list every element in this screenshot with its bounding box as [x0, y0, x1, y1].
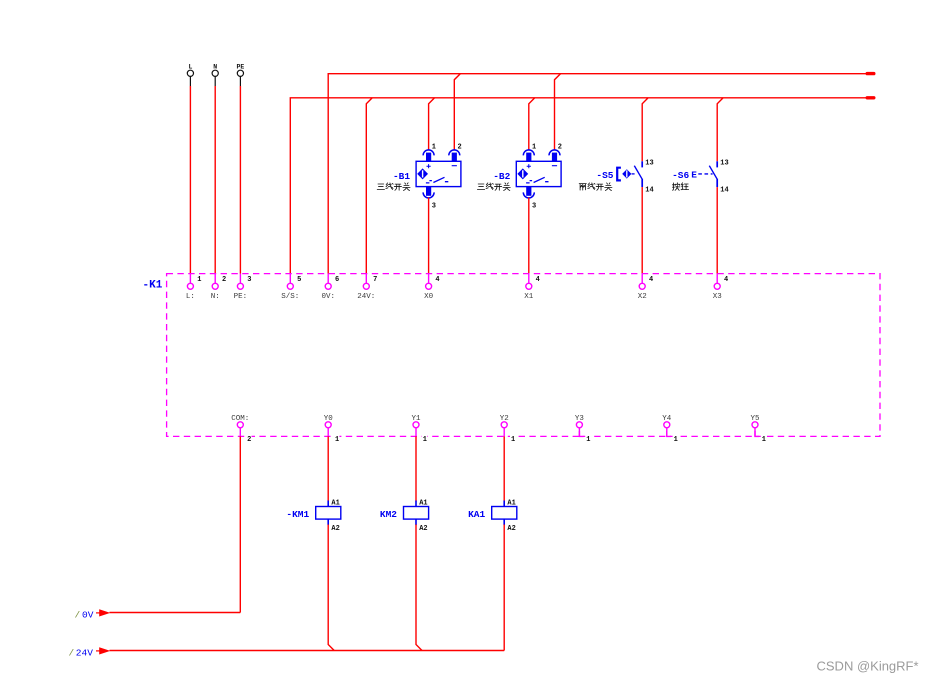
terminal PE: pin 3 of K1 — [234, 274, 252, 301]
svg-text:3: 3 — [532, 203, 536, 211]
pin 2 of B1 — [458, 144, 462, 152]
svg-text:KM2: KM2 — [380, 509, 397, 520]
svg-text:3: 3 — [432, 203, 436, 211]
wire B1 pin 3 down to PLC input — [428, 198, 430, 274]
svg-text:-S6: -S6 — [672, 170, 689, 181]
svg-text:A2: A2 — [331, 525, 339, 533]
coil KM1 — [316, 501, 341, 526]
svg-text:6: 6 — [335, 276, 339, 284]
wire 24V bus to B2 pin 1 — [529, 98, 535, 151]
wire 0V bus to B1 pin 2 — [454, 74, 460, 151]
terminal COM: pin 2 of K1 — [231, 415, 251, 444]
svg-text:13: 13 — [645, 160, 653, 168]
svg-text:-S5: -S5 — [596, 170, 613, 181]
pin 3 of B2 — [532, 203, 536, 211]
wire B2 pin 3 down to PLC input — [528, 198, 530, 274]
svg-text:4: 4 — [435, 276, 439, 284]
wire PE to terminal PE: — [239, 86, 241, 274]
terminal N — [212, 64, 218, 87]
label /0V — [75, 609, 94, 620]
svg-text:A1: A1 — [419, 500, 427, 508]
svg-text:4: 4 — [536, 276, 540, 284]
svg-text:N: N — [213, 64, 217, 71]
wire S5 pin 14 down to PLC input X2 — [641, 187, 643, 274]
wire KM2 output from K1 — [415, 436, 417, 501]
proximity sensor B2 — [516, 150, 561, 198]
svg-text:14: 14 — [720, 186, 728, 194]
wire 24V bus to S5 pin 13 — [642, 98, 648, 162]
svg-text:24V:: 24V: — [357, 293, 375, 301]
terminal Y3 pin 1 of K1 — [575, 415, 591, 444]
svg-text:0V:: 0V: — [321, 293, 335, 301]
svg-text:A2: A2 — [419, 525, 427, 533]
svg-text:1: 1 — [586, 436, 590, 444]
svg-text:4: 4 — [724, 276, 728, 284]
terminal L: pin 1 of K1 — [186, 274, 202, 301]
bus terminator arrow (0V bus) — [866, 72, 876, 75]
svg-text:CSDN @KingRF*: CSDN @KingRF* — [817, 659, 919, 674]
wire KA1 coil to 24V rail — [503, 525, 505, 651]
svg-text:-KM1: -KM1 — [286, 509, 309, 520]
svg-text:1: 1 — [532, 144, 536, 152]
label KA1 — [468, 509, 485, 520]
pin A2 of KM2 — [419, 525, 427, 533]
svg-text:L: L — [188, 64, 192, 71]
wire 0V bus (top rail) from terminal 0V: — [328, 74, 866, 274]
bus terminator arrow (24V bus) — [866, 96, 876, 99]
label -S6 — [672, 170, 689, 181]
svg-text:1: 1 — [674, 436, 678, 444]
pin 2 of B2 — [558, 144, 562, 152]
pin A1 of KM2 — [419, 500, 427, 508]
wire KM2 coil to 24V rail — [416, 525, 422, 651]
PLC module K1 boundary — [167, 274, 880, 437]
svg-text:-B1: -B1 — [393, 171, 410, 182]
svg-text:A1: A1 — [507, 500, 515, 508]
pin 14 of S6 — [720, 186, 728, 194]
pin A2 of KM1 — [331, 525, 339, 533]
wire 24V bus to B1 pin 1 — [429, 98, 435, 151]
terminal PE — [236, 64, 244, 87]
terminal X2 pin 4 of K1 — [638, 274, 654, 301]
label KM2 — [380, 509, 397, 520]
svg-text:13: 13 — [720, 160, 728, 168]
label 两线开关 (switch type) — [579, 183, 612, 191]
svg-text:1: 1 — [432, 144, 436, 152]
svg-text:7: 7 — [373, 276, 377, 284]
wire KM1 coil to 24V rail — [328, 525, 334, 651]
terminal Y5 pin 1 of K1 — [750, 415, 766, 444]
svg-text:2: 2 — [247, 436, 251, 444]
terminal Y2 pin 1 of K1 — [500, 415, 516, 444]
wire L to terminal L: — [189, 86, 191, 274]
wire 24V bus (second rail) from terminal S/S: — [290, 98, 866, 274]
pin A1 of KA1 — [507, 500, 515, 508]
24V rail — [110, 650, 505, 652]
pin 14 of S5 — [645, 186, 653, 194]
terminal X1 pin 4 of K1 — [524, 274, 540, 301]
svg-text:X2: X2 — [638, 293, 647, 301]
label -S5 — [596, 170, 613, 181]
pin 13 of S5 — [645, 160, 653, 168]
svg-text:E: E — [691, 170, 697, 181]
label 按钮 (pushbutton) — [672, 183, 688, 191]
svg-text:1: 1 — [335, 436, 339, 444]
svg-text:1: 1 — [511, 436, 515, 444]
terminal Y0 pin 1 of K1 — [324, 415, 340, 444]
pin 3 of B1 — [432, 203, 436, 211]
terminal L — [187, 64, 193, 87]
terminal N: pin 2 of K1 — [211, 274, 227, 301]
svg-text:2: 2 — [458, 144, 462, 152]
label /24V — [69, 647, 94, 658]
svg-text:5: 5 — [297, 276, 301, 284]
label sanxiankaiguan (sensor type) — [477, 183, 510, 191]
svg-text:X0: X0 — [424, 293, 434, 301]
svg-text:-B2: -B2 — [493, 171, 510, 182]
terminal 24V: pin 7 of K1 — [357, 274, 377, 301]
pin 1 of B1 — [432, 144, 436, 152]
label -B2 — [493, 171, 510, 182]
wire COM: to 0V rail — [239, 436, 241, 612]
coil KM2 — [404, 501, 429, 526]
svg-text:4: 4 — [649, 276, 653, 284]
terminal 0V: pin 6 of K1 — [321, 274, 339, 301]
terminal X3 pin 4 of K1 — [713, 274, 729, 301]
svg-text:A2: A2 — [507, 525, 515, 533]
svg-text:1: 1 — [762, 436, 766, 444]
wire 24V bus to S6 pin 13 — [717, 98, 723, 162]
svg-text:PE:: PE: — [234, 293, 248, 301]
pin A1 of KM1 — [331, 500, 339, 508]
terminal X0 pin 4 of K1 — [424, 274, 440, 301]
label -KM1 — [286, 509, 309, 520]
0V rail — [110, 612, 241, 614]
label -K1 — [143, 280, 163, 292]
svg-text:3: 3 — [247, 276, 251, 284]
source arrow /24V — [96, 647, 110, 654]
coil KA1 — [492, 501, 517, 526]
svg-text:PE: PE — [236, 64, 244, 71]
svg-text:/24V: /24V — [69, 647, 94, 658]
wire S6 pin 14 down to PLC input X3 — [716, 187, 718, 274]
proximity sensor B1 — [416, 150, 461, 198]
terminal Y1 pin 1 of K1 — [411, 415, 427, 444]
terminal Y4 pin 1 of K1 — [662, 415, 678, 444]
label sanxiankaiguan (sensor type) — [377, 183, 410, 191]
svg-text:1: 1 — [423, 436, 427, 444]
svg-text:14: 14 — [645, 186, 653, 194]
wire terminal 24V: to 24V bus — [366, 98, 372, 274]
svg-text:2: 2 — [222, 276, 226, 284]
wire KA1 output from K1 — [503, 436, 505, 501]
pin 1 of B2 — [532, 144, 536, 152]
svg-text:A1: A1 — [331, 500, 339, 508]
terminal S/S: pin 5 of K1 — [281, 274, 301, 301]
pin A2 of KA1 — [507, 525, 515, 533]
svg-text:X1: X1 — [524, 293, 534, 301]
source arrow /0V — [96, 609, 110, 616]
svg-text:X3: X3 — [713, 293, 723, 301]
svg-text:/0V: /0V — [75, 609, 94, 620]
svg-text:KA1: KA1 — [468, 509, 485, 520]
two-wire switch S5 — [617, 161, 642, 187]
svg-text:1: 1 — [197, 276, 201, 284]
pin 13 of S6 — [720, 160, 728, 168]
wire N to terminal N: — [214, 86, 216, 274]
label -B1 — [393, 171, 410, 182]
svg-text:2: 2 — [558, 144, 562, 152]
wire KM1 output from K1 — [327, 436, 329, 501]
svg-text:L:: L: — [186, 293, 195, 301]
pushbutton S6 — [691, 161, 717, 187]
svg-text:N:: N: — [211, 293, 220, 301]
svg-text:S/S:: S/S: — [281, 293, 299, 301]
watermark — [817, 659, 919, 674]
svg-text:-K1: -K1 — [143, 280, 163, 292]
wire 0V bus to B2 pin 2 — [555, 74, 561, 151]
